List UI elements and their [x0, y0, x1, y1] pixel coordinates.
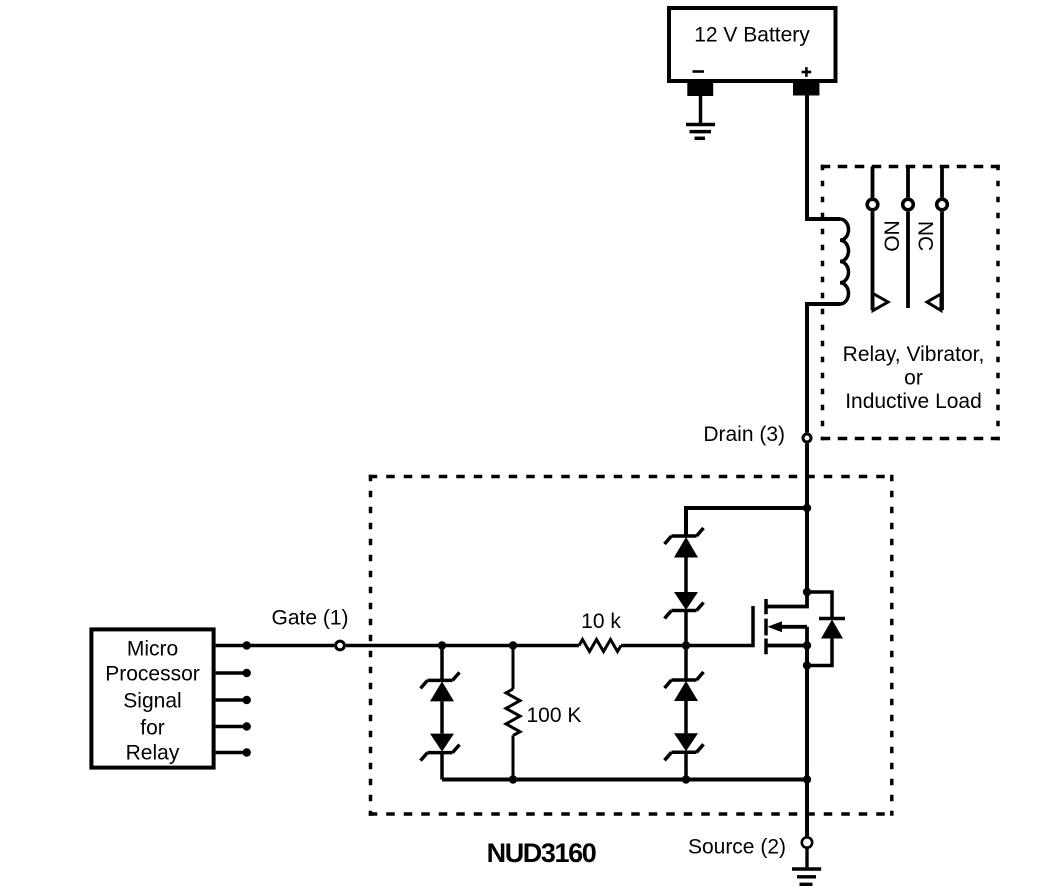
mosfet Q1 drain stub — [766, 592, 807, 607]
node junction dot rail/gs-zener — [682, 775, 690, 783]
zener ZD3 (input clamp, upper) — [421, 672, 460, 733]
wire gate to 100K resistor — [512, 646, 515, 690]
svg-text:NO: NO — [880, 220, 903, 252]
node junction dot source/body — [803, 641, 811, 649]
svg-text:12 V Battery: 12 V Battery — [694, 24, 810, 47]
wire microprocessor to gate terminal — [216, 644, 335, 648]
battery positive terminal — [793, 81, 819, 96]
node junction dot source/diode — [803, 661, 811, 669]
svg-text:NUD3160: NUD3160 — [487, 838, 596, 868]
svg-text:for: for — [140, 717, 165, 740]
svg-text:Processor: Processor — [105, 663, 200, 686]
node junction dot rail/100K — [509, 775, 517, 783]
svg-text:Relay, Vibrator,: Relay, Vibrator, — [843, 343, 985, 366]
source rail wire — [442, 778, 807, 782]
wire 10k to mosfet gate — [621, 644, 753, 648]
wire source rail to source terminal — [805, 780, 809, 837]
node junction dot drain/diode — [803, 588, 811, 596]
resistor R2 100K — [506, 689, 520, 736]
node junction dot gate/gs-zener — [682, 641, 690, 649]
node Gate (1) terminal circle — [336, 641, 345, 650]
svg-text:Drain (3): Drain (3) — [703, 423, 785, 446]
svg-text:or: or — [904, 367, 923, 390]
svg-text:Gate (1): Gate (1) — [271, 607, 348, 630]
ground (battery negative) — [686, 96, 715, 138]
wire battery+ to inductor — [807, 95, 840, 219]
zener ZD2 (gate-drain clamp, lower) — [665, 592, 704, 646]
NUD3160 dashed enclosure — [369, 475, 894, 816]
wire mosfet source down — [805, 646, 809, 780]
wire drain circle to mosfet drain — [805, 444, 809, 593]
pin stub 2 — [216, 669, 251, 677]
zener ZD6 (gate-source clamp, lower) — [665, 733, 704, 779]
node Source (2) terminal circle — [802, 837, 812, 847]
battery minus sign — [693, 70, 705, 73]
svg-text:Relay: Relay — [126, 742, 180, 765]
mosfet Q1 gate electrode — [751, 606, 755, 647]
zener ZD5 (gate-source clamp, upper) — [665, 672, 704, 733]
pin stub 5 — [216, 748, 251, 756]
battery B1 box — [669, 8, 836, 81]
zener ZD1 (gate-drain clamp, upper) — [665, 528, 704, 593]
svg-text:10 k: 10 k — [581, 610, 621, 633]
svg-text:NC: NC — [914, 221, 937, 251]
relay dashed enclosure — [821, 165, 1000, 441]
ground (source) — [792, 849, 821, 885]
pin stub 4 — [216, 722, 251, 730]
body diode D1 — [819, 617, 845, 621]
svg-text:Inductive Load: Inductive Load — [845, 390, 982, 413]
wire gate terminal to 10k — [346, 644, 579, 648]
mosfet Q1 body stub with arrow — [777, 625, 807, 629]
pin stub 3 — [216, 696, 251, 704]
inductor L1 relay coil — [840, 219, 849, 304]
pin 1 dot — [243, 641, 251, 649]
wire gate to gs zener — [684, 646, 688, 681]
wire 100K to source rail — [512, 736, 515, 780]
node junction dot drain/top-zener — [803, 504, 811, 512]
relay contact common — [903, 167, 914, 309]
mosfet Q1 channel segments — [764, 599, 768, 654]
node junction dot rail/source — [803, 775, 811, 783]
relay contact 2 (NC) — [927, 167, 947, 311]
wire drain node to gate-drain zener — [686, 508, 807, 536]
battery plus sign — [802, 67, 812, 77]
wire gate to left zener — [440, 646, 444, 681]
node Drain (3) terminal circle — [803, 434, 811, 442]
svg-text:100 K: 100 K — [527, 704, 582, 727]
body diode D1 branch wires — [807, 592, 832, 619]
mosfet Q1 source stub — [766, 644, 807, 648]
wire inductor to drain node — [807, 304, 840, 433]
svg-text:Signal: Signal — [123, 690, 181, 713]
resistor R1 10k — [579, 640, 621, 652]
zener ZD4 (input clamp, lower) — [421, 734, 460, 780]
micro processor box — [91, 629, 213, 767]
node junction dot gate/left-zener — [438, 641, 446, 649]
node junction dot gate/100K — [509, 641, 517, 649]
svg-text:Source (2): Source (2) — [688, 836, 786, 859]
svg-text:Micro: Micro — [127, 638, 178, 661]
battery negative terminal — [687, 81, 713, 96]
relay contact 1 (NO) — [867, 167, 888, 311]
